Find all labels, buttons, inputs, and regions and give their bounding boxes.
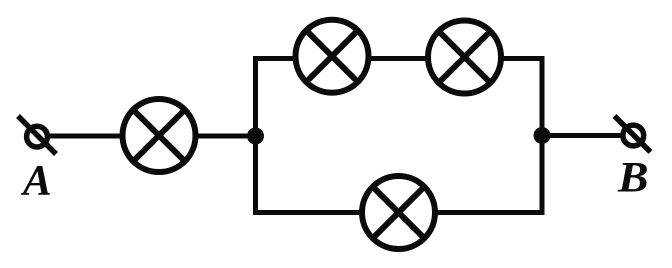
wire: right vertical + top-right and bottom-right stubs — [436, 59, 542, 213]
wire L1 to node 1 — [196, 134, 255, 139]
node 1 (left junction) — [247, 128, 264, 145]
wire node 2 to terminal B — [542, 133, 622, 138]
svg-text:B: B — [617, 154, 649, 201]
svg-text:A: A — [20, 158, 52, 205]
lamp L1 — [123, 99, 196, 172]
lamp L4 (bottom) — [362, 176, 435, 249]
lamp L2 (top left) — [296, 20, 369, 93]
node 2 (right junction) — [534, 127, 551, 144]
terminal A — [18, 116, 56, 154]
terminal B — [615, 116, 651, 152]
wire L2 to L3 — [369, 56, 427, 61]
lamp L3 (top right) — [428, 21, 501, 94]
wire A to lamp L1 — [49, 134, 122, 139]
wire: left vertical + top-left and bottom-left stubs — [256, 59, 362, 213]
